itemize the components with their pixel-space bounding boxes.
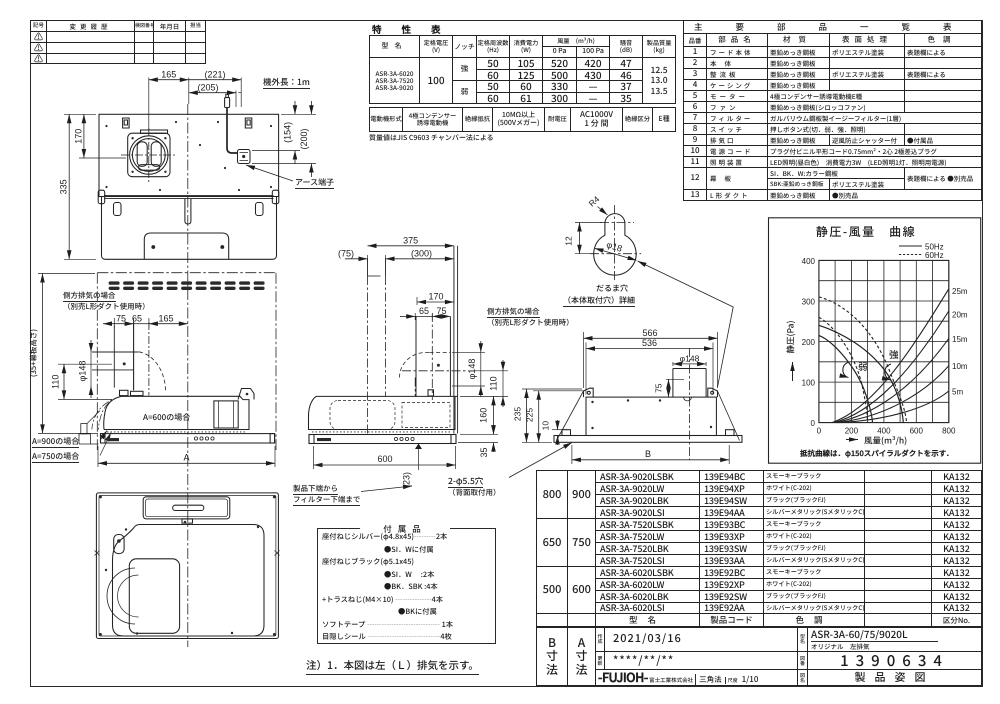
top view body outline [99,114,279,196]
long leader to rear view [638,261,734,387]
rear panel [586,397,716,435]
edge marks [95,551,280,556]
dims 235 225 [522,389,583,442]
dim 75 65 165 (front view) [103,318,188,328]
center slot tab [185,199,191,224]
earth terminal leader [246,165,293,181]
dim phi148 side [452,341,485,397]
body side view [316,395,458,397]
note 注)1 [306,658,479,675]
dimension texts [28,70,699,489]
alt width front curves [98,396,121,429]
dim 75 rear [666,379,684,397]
elbow arc (dashed) [139,352,166,393]
hidden internals [330,401,395,430]
flange bar end hooks [98,190,105,204]
wall double line [454,246,458,434]
dim 160 [460,396,498,434]
collar stub [673,369,706,398]
duct resistance curves [841,391,949,423]
body screw dots [105,121,272,191]
dim B [572,445,729,464]
dim A [98,446,275,467]
collar circles [130,136,168,174]
right bracket [238,389,254,400]
dim phi148 front [90,340,92,398]
dims (75) (300) [345,255,454,262]
top brackets [123,118,130,128]
collar center cross chains [121,154,177,156]
label: A=900/750 cases [32,436,79,448]
top view back plate below [102,197,277,260]
plot grid [819,260,949,422]
dim 566 [584,332,718,388]
dim 110 side [460,360,508,407]
left handle [114,535,124,554]
label: 2-φ5.5穴 [448,476,501,498]
switch box [143,497,230,519]
center chain line (through top/front/bottom views) [187,104,189,647]
side duct lines [113,326,115,388]
label: 側方排気の場合 (front view) [63,291,150,312]
dim 12 [575,223,602,254]
dim (221) [189,78,241,108]
alt-width slab end pieces (phantom) [79,411,100,444]
dim 536 [586,343,713,395]
legend lines [899,245,922,247]
filter dotted line [107,431,247,433]
fan curve weak 60Hz [819,317,868,422]
characteristic table title 特性表 [372,22,467,36]
fan curve strong 50Hz [819,325,903,422]
leader 2-phi5.5 [509,443,572,478]
dim 35 [458,425,498,452]
model/color table (bottom-right) [536,470,982,628]
dim 600 [314,446,456,469]
R4 leader [598,207,608,216]
strong/weak hook arrows [885,364,891,380]
exhaust collar plate [128,133,170,177]
corner brackets [584,388,594,397]
power cord [227,108,238,154]
label: アース端子 [295,177,334,189]
fan cover [129,559,179,634]
label: 側方排気の場合 (side view) [487,307,574,328]
screw dots [99,496,276,636]
title block (bottom-right) [536,626,982,686]
label: 機外長 1m [263,76,310,89]
dim (200) [252,101,316,177]
collar verticals [416,316,450,396]
support diagonals [557,391,740,441]
shutter flaps [137,142,147,167]
dim phi148 rear [673,362,706,366]
dim 170 [417,262,454,305]
bottom slab [101,434,275,443]
chart border [769,218,981,463]
characteristic table [369,35,676,104]
dim 375 [368,245,454,247]
dim 110 front [58,364,112,399]
revision table (top-left) [30,20,206,64]
dim (154) (right of top view) [252,101,316,164]
accessories box 付属品 [317,528,496,644]
louvers [109,281,265,290]
dim (35+tall) left [38,274,98,434]
duct verticals (chain) [368,259,386,276]
dim 65 75 [400,313,450,320]
dim 170 (left) [79,114,126,158]
dim 165 (top view) [149,78,189,131]
dim phi18 diagonal [595,248,637,260]
fan curve weak 50Hz [819,335,873,422]
bottom trapezoid tab [144,233,228,259]
slab side view [309,435,456,444]
main parts table (top-right) 主要部品一覧表 [683,20,982,201]
collar base clamps [120,390,129,395]
label: だるま穴 detail [596,283,628,294]
dim 10 rear [552,420,568,445]
side duct hidden outline [402,370,468,372]
dim (205) [189,91,241,108]
dim 335 (left) [64,114,96,259]
note under characteristic table [369,133,494,143]
axis arrows [846,439,858,441]
cabinet chain outline [97,273,276,450]
motor box right [214,401,238,428]
characteristic table lower strip [369,107,676,132]
label: 製品下端からフィルター下端まで [293,483,360,506]
lower plate cutouts [114,203,122,216]
rear slab [554,436,742,443]
filter panel [113,525,265,637]
dim (23) [361,444,422,492]
body outline [104,396,249,429]
tab screw dots [152,246,155,249]
flange bar double line [104,195,274,198]
terminal block [238,150,251,164]
A=900/750 leader arrows [100,431,107,441]
fan curve strong 60Hz [819,297,907,423]
